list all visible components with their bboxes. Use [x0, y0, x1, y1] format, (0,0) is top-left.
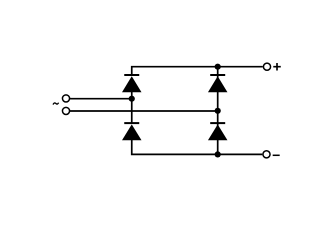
terminal minus: [263, 151, 270, 158]
wire bottom rail: [132, 140, 263, 154]
node junction right branch / top rail: [215, 64, 221, 70]
node junction right branch / bottom rail: [215, 151, 221, 157]
wire left branch: [131, 91, 133, 124]
wire AC input 2: [70, 110, 218, 112]
terminal AC top: [62, 95, 69, 102]
label ~: [53, 103, 59, 105]
wire AC input 1: [70, 98, 132, 100]
diode D4: [208, 123, 228, 140]
diode D3: [122, 123, 142, 140]
wire right branch: [217, 67, 219, 155]
svg-text:+: +: [273, 59, 282, 76]
terminal AC bottom: [62, 107, 69, 114]
svg-text:−: −: [272, 147, 280, 163]
wire top rail: [132, 67, 263, 74]
node junction left branch / AC1: [129, 96, 135, 102]
terminal plus: [263, 63, 270, 70]
diode D1: [122, 75, 142, 92]
node junction right branch / AC2: [215, 108, 221, 114]
diode D2: [208, 75, 228, 92]
